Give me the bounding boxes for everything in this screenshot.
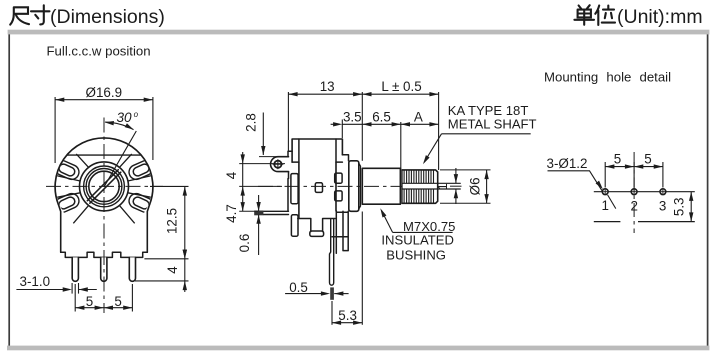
30 degree dimension bbox=[104, 110, 139, 187]
right wing lower slot bbox=[127, 191, 156, 215]
svg-text:5.3: 5.3 bbox=[338, 308, 357, 323]
centre square bbox=[315, 183, 322, 193]
0.6 dimension (pin thickness) bbox=[237, 195, 261, 255]
dia 6 dimension bbox=[440, 170, 491, 203]
svg-text:3-1.0: 3-1.0 bbox=[20, 274, 51, 289]
svg-text:4.7: 4.7 bbox=[224, 204, 239, 223]
mounting hole 3 bbox=[660, 189, 666, 195]
0.5 dimension (pin width) bbox=[285, 280, 349, 300]
knurl teeth upper bbox=[404, 171, 433, 183]
svg-text:3-Ø1.2: 3-Ø1.2 bbox=[547, 156, 588, 171]
bottom edge line bbox=[594, 221, 695, 223]
svg-text:5.3: 5.3 bbox=[671, 197, 686, 216]
svg-text:0.6: 0.6 bbox=[237, 234, 252, 253]
left tall tab bbox=[291, 174, 298, 204]
svg-text:Ø16.9: Ø16.9 bbox=[86, 85, 122, 100]
pin 1 (front) bbox=[72, 257, 78, 281]
knurled shaft outline bbox=[402, 170, 438, 203]
pin 2 (front) bbox=[101, 257, 107, 281]
horizontal centerline front bbox=[46, 185, 163, 187]
hanzi 尺 bbox=[10, 7, 29, 24]
mounting hole 1 bbox=[602, 189, 608, 195]
knurl teeth lower bbox=[404, 189, 433, 202]
2.8 dimension bbox=[244, 113, 286, 157]
ring circle 2 bbox=[84, 166, 125, 207]
5,5 pin pitch dimensions bbox=[75, 284, 132, 312]
collar chamfer face bbox=[359, 163, 361, 209]
right mid tabs bbox=[335, 173, 342, 183]
collar bbox=[349, 161, 359, 212]
M7X0.75 INSULATED BUSHING label bbox=[378, 207, 455, 262]
ring circle outer bbox=[80, 162, 129, 211]
left wing spoke lines bbox=[56, 154, 88, 227]
svg-text:5: 5 bbox=[114, 294, 121, 309]
svg-text:13: 13 bbox=[320, 79, 335, 94]
ear step to body bbox=[288, 151, 292, 211]
svg-text:2: 2 bbox=[631, 199, 638, 214]
4 dimension (ear to centre) bbox=[224, 152, 285, 186]
svg-text:5: 5 bbox=[644, 152, 651, 167]
svg-text:6.5: 6.5 bbox=[372, 109, 391, 124]
wing pockets and slots (clipped at rim) bbox=[53, 154, 156, 227]
ear hole crosshair bbox=[273, 160, 283, 169]
dia 16.9 dimension bbox=[55, 85, 153, 163]
svg-text:1: 1 bbox=[436, 183, 450, 190]
12.5 dimension bbox=[144, 186, 188, 258]
body centre block sides bbox=[299, 162, 336, 218]
5,5 hole pitch dimensions bbox=[605, 152, 663, 188]
lower left tab bbox=[291, 215, 298, 236]
5.3 dimension (pin to face) bbox=[332, 212, 362, 325]
top plate inner ribs bbox=[292, 139, 342, 162]
svg-text:L ± 0.5: L ± 0.5 bbox=[381, 79, 421, 94]
shaft circle bbox=[89, 171, 119, 201]
ear hole bbox=[274, 161, 281, 168]
svg-text:2.8: 2.8 bbox=[244, 113, 259, 132]
left wing upper slot bbox=[53, 158, 82, 182]
svg-text:1: 1 bbox=[602, 198, 609, 213]
6.5 dimension bbox=[362, 109, 401, 169]
terminal pin side bbox=[263, 211, 288, 214]
knurl start edge bbox=[400, 170, 402, 203]
shaft slot line 1 bbox=[87, 170, 118, 201]
bushing M7 bbox=[362, 168, 400, 204]
svg-text:Mounting hole detail: Mounting hole detail bbox=[544, 70, 671, 85]
svg-text:A: A bbox=[414, 109, 423, 124]
A dimension bbox=[401, 109, 439, 126]
L +/- 0.5 dimension bbox=[362, 79, 438, 170]
svg-text:3.5: 3.5 bbox=[343, 109, 362, 124]
13 dimension bbox=[288, 79, 362, 161]
hole centerline vertical (pin 2) bbox=[633, 152, 635, 233]
svg-text:5: 5 bbox=[614, 152, 621, 167]
vertical centerline front bbox=[103, 118, 105, 314]
right top step bbox=[342, 155, 348, 161]
svg-text:(Dimensions): (Dimensions) bbox=[50, 6, 165, 28]
mounting hole 2 bbox=[631, 189, 637, 195]
slot width 1 dimension bbox=[436, 168, 458, 204]
pot body outer rim arc bbox=[55, 138, 153, 205]
svg-text:5: 5 bbox=[86, 294, 93, 309]
ring circle 3 bbox=[86, 169, 122, 205]
body bottom edge with three tabs bbox=[61, 252, 148, 257]
bottom foot bbox=[310, 231, 324, 236]
body top plate bbox=[292, 139, 342, 162]
svg-text:(Unit):mm: (Unit):mm bbox=[617, 6, 703, 28]
svg-text:METAL SHAFT: METAL SHAFT bbox=[448, 116, 537, 131]
pin 3 (front) bbox=[129, 257, 135, 281]
hanzi 寸 bbox=[31, 5, 50, 24]
KA TYPE 18T METAL SHAFT label bbox=[421, 103, 536, 166]
left wing lower slot bbox=[53, 191, 82, 215]
side view horizontal centerline bbox=[258, 185, 402, 187]
svg-text:o: o bbox=[134, 110, 139, 119]
5.3 dimension vertical bbox=[671, 192, 693, 222]
svg-text:3: 3 bbox=[659, 199, 666, 214]
mounting ear bbox=[271, 157, 289, 172]
3-dia1.2 label with leader bbox=[547, 156, 616, 209]
bottom right flange bbox=[332, 211, 348, 253]
long bottom pin bbox=[330, 220, 334, 286]
hanzi 单 bbox=[574, 5, 594, 25]
svg-text:Full.c.c.w position: Full.c.c.w position bbox=[47, 44, 151, 59]
title right: 单位(Unit):mm bbox=[574, 5, 702, 28]
3-1.0 dimension (pin width) bbox=[16, 274, 96, 294]
4.7 dimension (centre to pin) bbox=[224, 186, 258, 222]
svg-text:INSULATED: INSULATED bbox=[381, 232, 454, 247]
svg-text:Ø6: Ø6 bbox=[468, 177, 483, 195]
svg-text:BUSHING: BUSHING bbox=[386, 248, 446, 263]
body lower sides bbox=[58, 205, 149, 253]
svg-text:4: 4 bbox=[165, 266, 180, 274]
svg-text:30: 30 bbox=[117, 110, 133, 125]
shaft slot lines extending bbox=[403, 183, 461, 189]
hanzi 位 bbox=[595, 6, 615, 26]
bottom staircase bbox=[298, 219, 335, 232]
title left: 尺寸(Dimensions) bbox=[10, 5, 165, 28]
right wing upper slot bbox=[127, 158, 156, 182]
svg-text:0.5: 0.5 bbox=[289, 280, 308, 295]
right wing spoke lines bbox=[119, 154, 151, 227]
shaft slot line 2 bbox=[90, 172, 121, 203]
3.5 dimension bbox=[331, 109, 363, 138]
surface line through holes bbox=[594, 191, 695, 193]
top chord line bbox=[67, 154, 140, 156]
svg-text:4: 4 bbox=[224, 171, 239, 179]
4 dimension (pin length) bbox=[135, 250, 189, 292]
svg-text:12.5: 12.5 bbox=[165, 208, 180, 234]
